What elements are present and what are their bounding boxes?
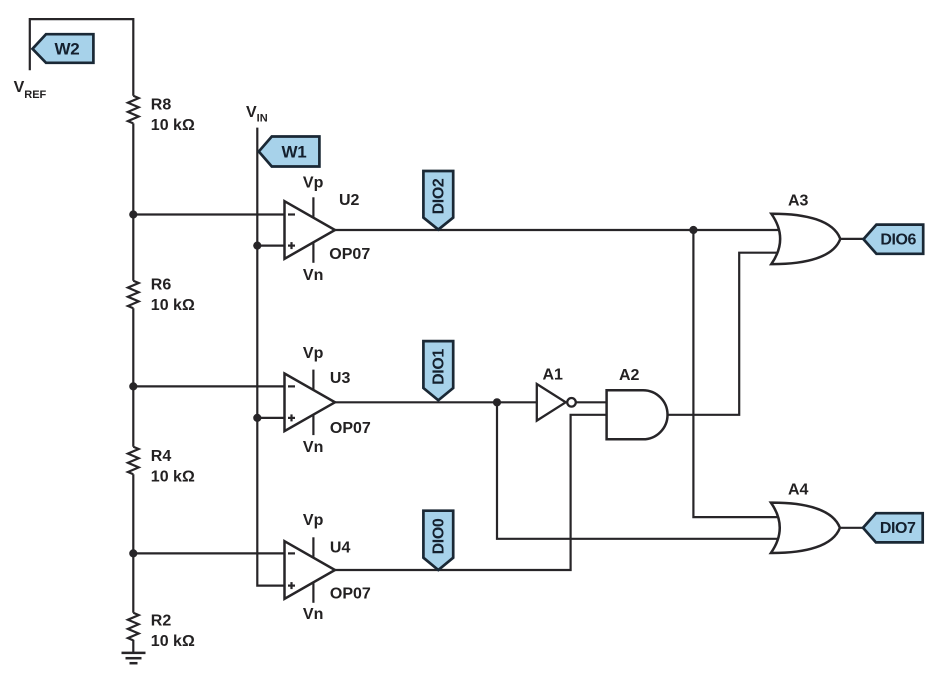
wire U4 output riser to A2 bottom input [333,415,620,570]
resistor R4 [128,447,139,475]
svg-text:Vn: Vn [303,439,323,456]
node ladder-U3 [129,382,137,390]
op-amp U3 [285,370,336,436]
OR gate A3 [771,214,840,264]
wire U2 output to A3 top input [333,229,800,231]
svg-text:Vp: Vp [303,345,324,362]
node U3out-riser [493,398,501,406]
op-amp U2 [285,197,336,262]
svg-text:10 kΩ: 10 kΩ [151,297,195,314]
svg-text:OP07: OP07 [330,585,371,602]
svg-text:OP07: OP07 [330,420,371,437]
svg-text:A3: A3 [788,192,809,209]
wire A4 output to DIO7 flag [840,527,864,529]
svg-text:W2: W2 [54,40,79,59]
svg-text:Vn: Vn [303,267,323,284]
resistor R2 [128,613,139,641]
wire U3 output to A1 input [333,401,540,403]
op-amp U4 [285,537,336,603]
wire node to U3 minus [133,385,295,387]
svg-text:DIO0: DIO0 [431,518,448,554]
OR gate A4 [771,503,840,553]
flag W2 [33,34,94,63]
inverter A1 [537,384,576,421]
svg-text:DIO6: DIO6 [880,232,916,249]
flag DIO7 [863,513,923,542]
wire ladder segment R8-R6 [132,123,134,280]
node U2out-riser [689,226,697,234]
wire U3-node down to A4 bottom input [497,402,800,539]
flag DIO0 [423,511,453,570]
flag DIO2 [423,171,453,230]
svg-text:A2: A2 [619,367,640,384]
wire VIN to U2 plus [257,245,295,247]
wire ladder segment R2-ground [132,640,134,653]
svg-text:Vp: Vp [303,512,324,529]
svg-text:U2: U2 [339,192,360,209]
svg-text:10 kΩ: 10 kΩ [151,468,195,485]
wire A2 output riser to A3 bottom input [666,253,800,415]
svg-text:W1: W1 [281,143,306,162]
svg-text:10 kΩ: 10 kΩ [151,633,195,650]
node ladder-U4 [129,549,137,557]
flag DIO6 [864,225,924,254]
flag DIO1 [423,341,453,400]
wire node to U4 minus [133,552,295,554]
node VIN-U2plus [253,242,261,250]
svg-text:Vp: Vp [303,175,324,192]
svg-text:DIO7: DIO7 [880,520,916,537]
wire ladder segment R4-R2 [132,474,134,613]
svg-text:U3: U3 [330,370,351,387]
svg-text:R4: R4 [151,448,172,465]
wire riser U2-node down to A4 top input [693,230,800,517]
wire top rail VREF [30,19,134,96]
wire A1 output to A2 top input [576,401,620,403]
flag W1 [259,137,320,167]
resistor R6 [128,281,139,309]
node ladder-U2 [129,210,137,218]
wire VIN to U3 plus [257,417,295,419]
ground [122,653,146,663]
node VIN-U3plus [253,414,261,422]
svg-text:A4: A4 [788,482,809,499]
svg-text:U4: U4 [330,540,351,557]
svg-text:A1: A1 [543,366,564,383]
resistor R8 [128,96,139,124]
svg-text:DIO2: DIO2 [431,178,448,214]
wire A3 output to DIO6 flag [840,238,864,240]
AND gate A2 [607,390,668,439]
svg-text:R2: R2 [151,613,172,630]
svg-text:DIO1: DIO1 [431,349,448,385]
svg-text:10 kΩ: 10 kΩ [151,117,195,134]
wire ladder segment R6-R4 [132,308,134,446]
wire node to U2 minus [133,213,295,215]
wire VIN vertical [257,128,295,586]
svg-text:OP07: OP07 [329,246,370,263]
svg-text:R6: R6 [151,277,172,294]
svg-text:Vn: Vn [303,606,323,623]
svg-text:R8: R8 [151,96,172,113]
